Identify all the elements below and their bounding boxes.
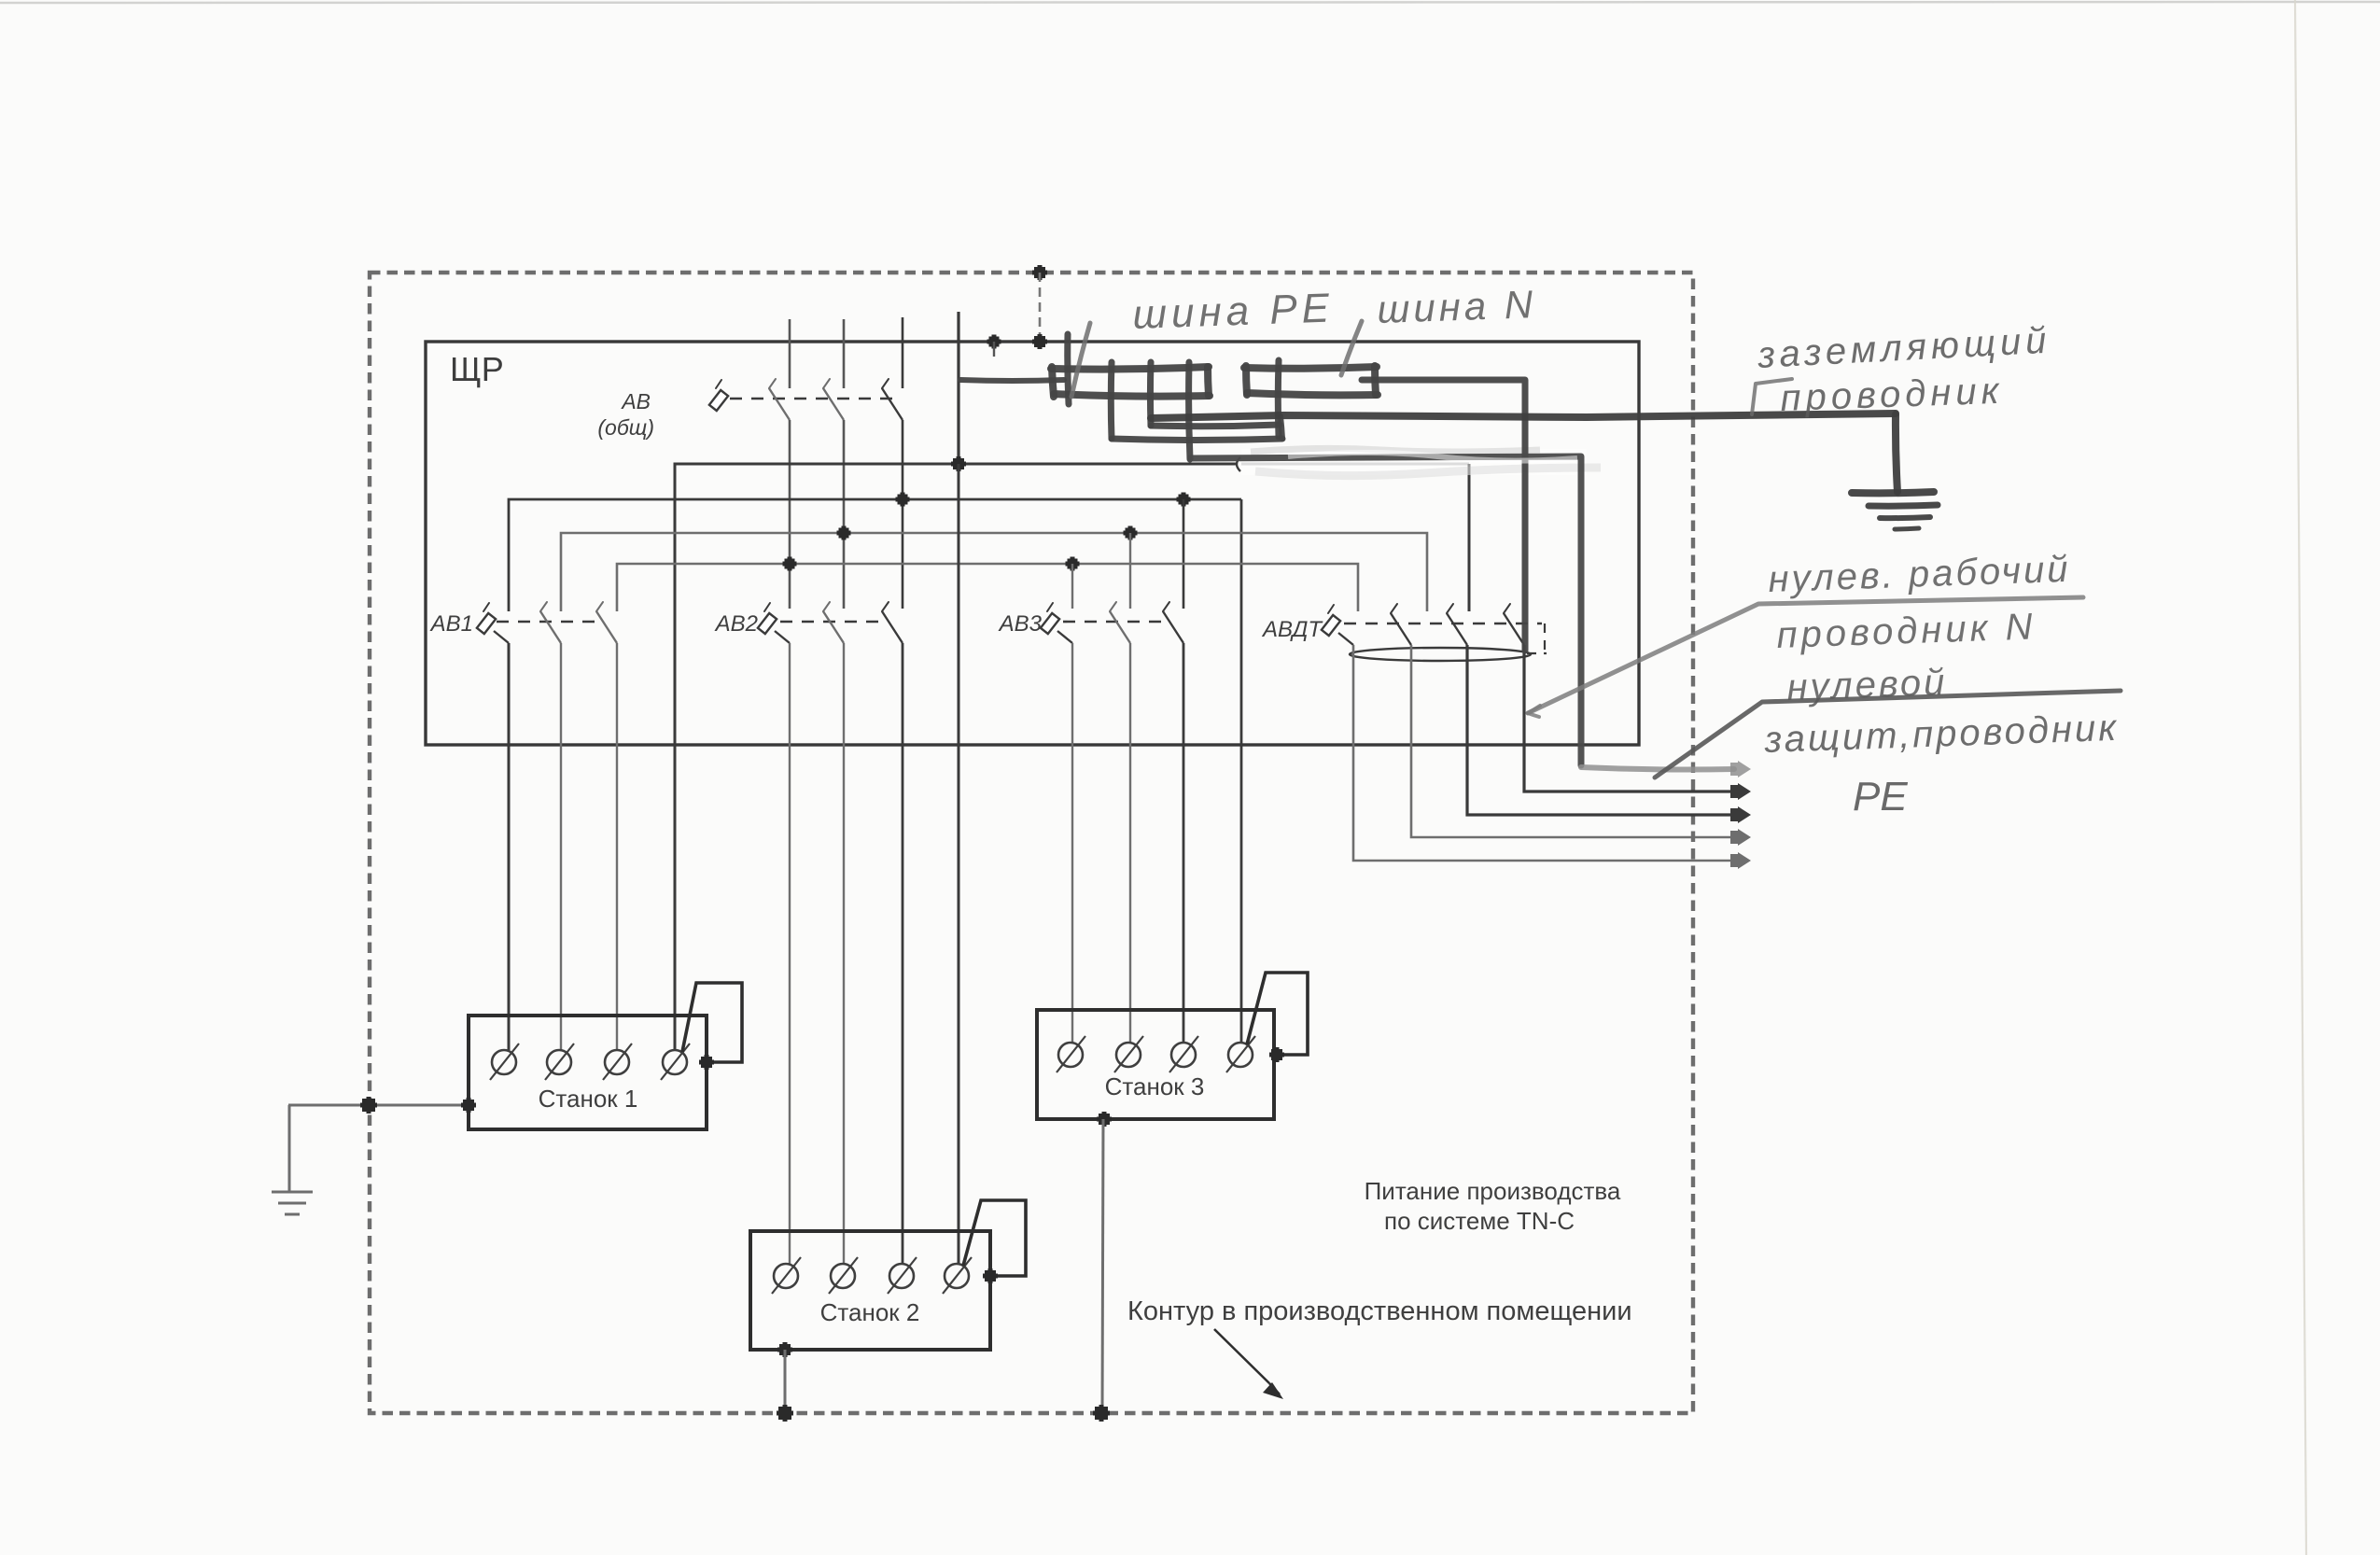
machine Станок 3 terminal 1 bbox=[1058, 1043, 1083, 1067]
leader: шина N bbox=[1341, 321, 1362, 375]
bus: шина N (hand-drawn busbar) bbox=[1244, 367, 1377, 369]
scan artifact: right paper edge bbox=[2295, 0, 2306, 1555]
node: АВ3 pole3 feed tap bbox=[1179, 495, 1189, 505]
leader: нулев. рабочий underline + pointer bbox=[1528, 597, 2083, 713]
wire: Станок 2 PE jumper to frame bbox=[963, 1200, 1026, 1276]
node: АВ3 pole1 feed tap bbox=[1068, 559, 1078, 569]
node: Станок 3 frame to loop (top) bbox=[1099, 1114, 1110, 1125]
smudge over re-routed PE wire bbox=[1288, 453, 1577, 461]
node: Станок 2 bond on loop bbox=[778, 1407, 791, 1420]
terminal tick N-1 bbox=[1275, 360, 1282, 437]
node: PEN tap on loop top bbox=[1034, 267, 1045, 278]
wire: АВ2 out 3 to Станок 2 T3 bbox=[902, 643, 904, 1264]
machine Станок 2 terminal 1 bbox=[774, 1264, 798, 1288]
svg-text:Станок 1: Станок 1 bbox=[539, 1085, 638, 1113]
wire: PE conductor re-route (pencil) bbox=[1190, 456, 1581, 765]
svg-text:Питание производства: Питание производства bbox=[1365, 1177, 1621, 1205]
wire: АВДТ out pole4 (N) bbox=[1524, 645, 1730, 792]
wire: АВ1 out 1 to Станок 1 T1 bbox=[508, 643, 511, 1050]
node: PEN junction on panel top edge bbox=[1034, 336, 1045, 347]
svg-text:шина N: шина N bbox=[1377, 282, 1537, 331]
circuit breaker АВ3 pole 1 with handle flag bbox=[1041, 613, 1059, 634]
machine Станок 3 terminal 2 bbox=[1116, 1043, 1141, 1067]
circuit breaker АВДТ pole 4 (N) bbox=[1504, 604, 1510, 613]
wire: Станок 3 PE jumper to frame bbox=[1247, 973, 1308, 1055]
svg-text:АВ3: АВ3 bbox=[998, 611, 1043, 637]
circuit breaker АВ3 pole 3 bbox=[1163, 602, 1169, 611]
wire: supply L1 bbox=[789, 319, 791, 388]
circuit breaker АВ3 trip linkage bbox=[1063, 621, 1164, 623]
wire: АВ3 out 2 to Станок 3 T2 bbox=[1129, 643, 1131, 1043]
svg-text:АВДТ: АВДТ bbox=[1261, 617, 1323, 642]
wire: L1 distribution (АВ1 pole3 / АВ3 pole1 / АВДТ pole1) bbox=[617, 564, 1358, 611]
svg-text:Контур в производственном поме: Контур в производственном помещении bbox=[1127, 1296, 1632, 1326]
node: N tap bbox=[953, 458, 964, 469]
wire: PE jumper 2 (pencil) bbox=[1112, 439, 1282, 441]
circuit breaker АВДТ pole-4 dashed enclosure bbox=[1544, 623, 1546, 653]
wire: earth electrode drop bbox=[288, 1105, 291, 1192]
circuit breaker АВ2 trip linkage bbox=[780, 621, 883, 623]
wire: supply L2 bbox=[843, 319, 846, 388]
smudge: erased area right of PE bus bbox=[1241, 449, 1587, 475]
wire: supply L3 bbox=[902, 317, 904, 388]
machine Станок 2 terminal 3 bbox=[889, 1264, 914, 1288]
circuit breaker АВДТ pole 3 bbox=[1447, 604, 1453, 613]
arrow: outgoing circuit 2 bbox=[1730, 829, 1751, 846]
wire: N line to Станок 2 T4 bbox=[958, 464, 960, 1264]
node: earthing bond at Станок 1 bbox=[463, 1100, 474, 1111]
arrow: outgoing circuit 3 bbox=[1730, 806, 1751, 823]
wire: PE jumper 1 (pencil) bbox=[1151, 425, 1280, 427]
wire: N distribution right drop to АВДТ pole 3 bbox=[1468, 464, 1471, 611]
node: Станок 2 frame bond bbox=[985, 1270, 996, 1282]
wire: L3 bus drop bbox=[902, 420, 904, 609]
machine Станок 3 enclosure bbox=[1037, 1010, 1274, 1119]
wire: АВ3 pole2 feed drop bbox=[1129, 533, 1131, 609]
circuit breaker АВ3 pole 2 bbox=[1110, 602, 1116, 611]
circuit breaker АВДТ trip linkage bbox=[1344, 623, 1542, 625]
arrow: PE outgoing (smudged) bbox=[1730, 761, 1751, 777]
node: earthing tap on loop bbox=[362, 1099, 375, 1112]
wire: АВ1 out 2 to Станок 1 T2 bbox=[560, 643, 562, 1050]
bus: шина PE (hand-drawn busbar) bbox=[1051, 367, 1209, 370]
svg-text:АВ2: АВ2 bbox=[714, 611, 758, 637]
circuit breaker АВ1 pole 3 bbox=[596, 602, 603, 611]
svg-text:Станок 3: Станок 3 bbox=[1105, 1072, 1205, 1100]
node: L3 tap bbox=[898, 495, 908, 505]
wire: L2 distribution (АВ1 pole2 / АВ3 pole2 / АВДТ pole2) bbox=[561, 533, 1427, 611]
arrow: caption pointer to loop bbox=[1214, 1329, 1269, 1383]
svg-text:АВ: АВ bbox=[620, 389, 651, 413]
node: L1 tap bbox=[785, 559, 795, 569]
wire: Станок 3 N drop bbox=[1240, 499, 1243, 1044]
node: АВ3 pole2 feed tap bbox=[1126, 528, 1136, 539]
machine Станок 3 terminal 4 (PEN) bbox=[1228, 1043, 1253, 1067]
node: Станок 3 bond on loop bbox=[1095, 1407, 1108, 1420]
wire: Станок 3 frame to earthing loop bbox=[1102, 1119, 1103, 1414]
svg-text:проводник: проводник bbox=[1780, 371, 2004, 419]
wire: Станок 2 frame to earthing loop bbox=[784, 1350, 787, 1414]
machine Станок 2 enclosure bbox=[750, 1231, 990, 1350]
scan artifact: top page edge line bbox=[0, 2, 2380, 3]
ground: local earth electrode bbox=[272, 1191, 313, 1194]
terminal tick PE-3 bbox=[1147, 362, 1155, 426]
ground: main earth electrode (hand-drawn) bbox=[1852, 492, 1934, 493]
svg-text:АВ1: АВ1 bbox=[429, 611, 473, 637]
wire: L2 bus drop bbox=[843, 420, 846, 609]
circuit breaker АВ(общ) pole 3 bbox=[882, 379, 889, 388]
wire: АВДТ out pole2 bbox=[1411, 645, 1730, 837]
machine Станок 2 terminal 4 (PEN) bbox=[945, 1264, 969, 1288]
wire: АВ2 out 1 to Станок 2 T1 bbox=[789, 643, 791, 1264]
svg-text:(общ): (общ) bbox=[597, 415, 654, 440]
wire: АВ1 out 3 to Станок 1 T3 bbox=[616, 643, 618, 1050]
node: Станок 2 frame to loop (top) bbox=[779, 1344, 791, 1355]
wire: N distribution erased segment bbox=[1241, 463, 1469, 466]
wire: АВДТ out pole3 bbox=[1467, 645, 1730, 815]
arrow: outgoing circuit 4 bbox=[1730, 783, 1751, 800]
machine Станок 2 terminal 2 bbox=[831, 1264, 855, 1288]
wire: АВ3 pole3 feed drop bbox=[1183, 499, 1185, 609]
distribution panel ЩР enclosure bbox=[426, 342, 1639, 745]
leader: нулевой underline + защит pointer bbox=[1655, 691, 2121, 777]
machine Станок 1 terminal 4 (PEN) bbox=[663, 1050, 687, 1074]
circuit breaker АВ2 pole 1 with handle flag bbox=[758, 613, 777, 634]
circuit breaker АВДТ pole 2 bbox=[1391, 604, 1397, 613]
terminal tick PE-4 bbox=[1189, 362, 1190, 459]
wire: L1 bus drop bbox=[789, 420, 791, 609]
machine Станок 1 enclosure bbox=[469, 1016, 707, 1129]
wire: АВ3 out 1 to Станок 3 T1 bbox=[1071, 643, 1073, 1043]
svg-text:ЩР: ЩР bbox=[450, 350, 504, 388]
wire: АВ2 out 2 to Станок 2 T2 bbox=[843, 643, 845, 1264]
wire: АВДТ out pole1 to PE-group tail bbox=[1353, 645, 1730, 861]
node: Станок 3 frame bond bbox=[1271, 1049, 1282, 1060]
wire: Станок 1 PE jumper to frame bbox=[682, 983, 742, 1062]
wire: L3 distribution (АВ1 pole1 / АВ3 pole3 / Станок 3 N) bbox=[509, 499, 1241, 611]
machine Станок 1 terminal 1 bbox=[492, 1050, 516, 1074]
svg-text:Станок 2: Станок 2 bbox=[820, 1298, 920, 1326]
circuit breaker АВ2 pole 2 bbox=[823, 602, 830, 611]
circuit breaker АВ1 pole 2 bbox=[540, 602, 547, 611]
svg-text:по системе TN-C: по системе TN-C bbox=[1384, 1207, 1575, 1235]
arrow: outgoing circuit (bottom, PE) bbox=[1730, 852, 1751, 869]
machine Станок 3 terminal 3 bbox=[1171, 1043, 1196, 1067]
terminal tick PE-2 bbox=[1108, 362, 1115, 439]
АВДТ differential current transformer oval bbox=[1350, 648, 1531, 661]
circuit breaker АВ2 pole 3 bbox=[882, 602, 889, 611]
wire: PEN drop from loop to panel bbox=[1039, 273, 1042, 342]
circuit breaker АВ(общ) pole 2 bbox=[823, 379, 830, 388]
node: spare junction on panel top edge bbox=[989, 337, 1000, 347]
circuit breaker АВДТ pole 1 with handle flag bbox=[1322, 615, 1340, 636]
svg-text:шина PE: шина PE bbox=[1132, 285, 1335, 337]
machine Станок 1 terminal 3 bbox=[605, 1050, 629, 1074]
wire: N bus feed to АВДТ pole 4 (pencil) bbox=[1362, 380, 1525, 651]
wire: АВ3 out 3 to Станок 3 T3 bbox=[1183, 643, 1185, 1043]
circuit breaker АВ1 pole 1 with handle flag bbox=[477, 613, 496, 634]
circuit breaker АВ(общ) trip linkage bbox=[730, 398, 896, 400]
node: Станок 1 frame bond bbox=[701, 1057, 712, 1068]
wire: заземляющий проводник (pencil, to earth) bbox=[1151, 413, 1896, 418]
svg-text:РЕ: РЕ bbox=[1853, 774, 1908, 820]
leader: шина PE bbox=[1071, 323, 1090, 397]
leader mark under заземляющий bbox=[1752, 379, 1792, 414]
node: L2 tap bbox=[839, 528, 849, 539]
circuit breaker АВ1 trip linkage bbox=[497, 621, 597, 623]
wire: АВ3 pole1 feed drop bbox=[1071, 564, 1073, 609]
circuit breaker АВ(общ) handle flag bbox=[709, 390, 728, 411]
machine Станок 1 terminal 2 bbox=[547, 1050, 571, 1074]
terminal tick PE-1 bbox=[1068, 334, 1069, 404]
wire: N distribution (to Станок 1 N and АВДТ pole 3) bbox=[675, 464, 1236, 1050]
wire: Станок 1 frame earthing conductor bbox=[288, 1104, 469, 1107]
wire: supply PEN/N riser bbox=[957, 312, 959, 464]
production room earthing loop (dashed boundary) bbox=[370, 273, 1693, 1413]
wire: PEN link to PE bus (pencil) bbox=[960, 377, 1064, 384]
circuit breaker АВ(общ) pole 1 bbox=[769, 379, 776, 388]
